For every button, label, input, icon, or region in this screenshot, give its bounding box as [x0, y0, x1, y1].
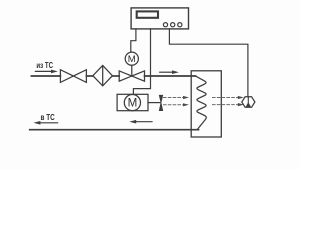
pipe: supply from heating network	[31, 75, 60, 77]
svg-text:из ТС: из ТС	[36, 60, 53, 70]
control valve V2 (motorized)	[119, 65, 144, 81]
air flow arrows (dashed) fan to heater	[164, 98, 185, 105]
air flow arrows (dashed) heater to sensor	[213, 98, 240, 105]
pipe: return to heating network	[30, 129, 199, 131]
pipe segment: control valve to air heater	[145, 75, 196, 77]
wire: controller to pump motor	[133, 29, 150, 94]
shaft: pump to fan	[148, 102, 160, 104]
temperature sensor BT1 (duct sensor)	[242, 97, 255, 108]
svg-text:M: M	[128, 97, 138, 110]
fan B1 (air blower)	[159, 95, 162, 110]
motor actuator M of valve V2	[125, 52, 138, 65]
air heater W1 (heat exchanger housing)	[191, 71, 221, 137]
arrow: return flow direction (left)	[34, 121, 58, 125]
controller A1	[131, 8, 188, 29]
svg-text:в ТС: в ТС	[41, 112, 55, 122]
svg-text:M: M	[128, 54, 136, 65]
heating coil of W1	[196, 76, 207, 129]
arrow: return flow from heater (left)	[129, 120, 152, 124]
pipe segment: valve V1 to filter	[86, 75, 93, 77]
wire: controller to temperature sensor	[169, 29, 248, 97]
filter F1 (strainer)	[93, 65, 113, 86]
pump P1 (fan drive motor)	[117, 94, 148, 110]
valve V1 (gate valve)	[60, 70, 86, 83]
pipe segment: filter to control valve	[112, 75, 119, 77]
wire: controller to valve actuator	[131, 29, 136, 52]
arrow: supply flow direction	[35, 70, 58, 74]
arrow: flow direction to heater	[160, 70, 179, 74]
